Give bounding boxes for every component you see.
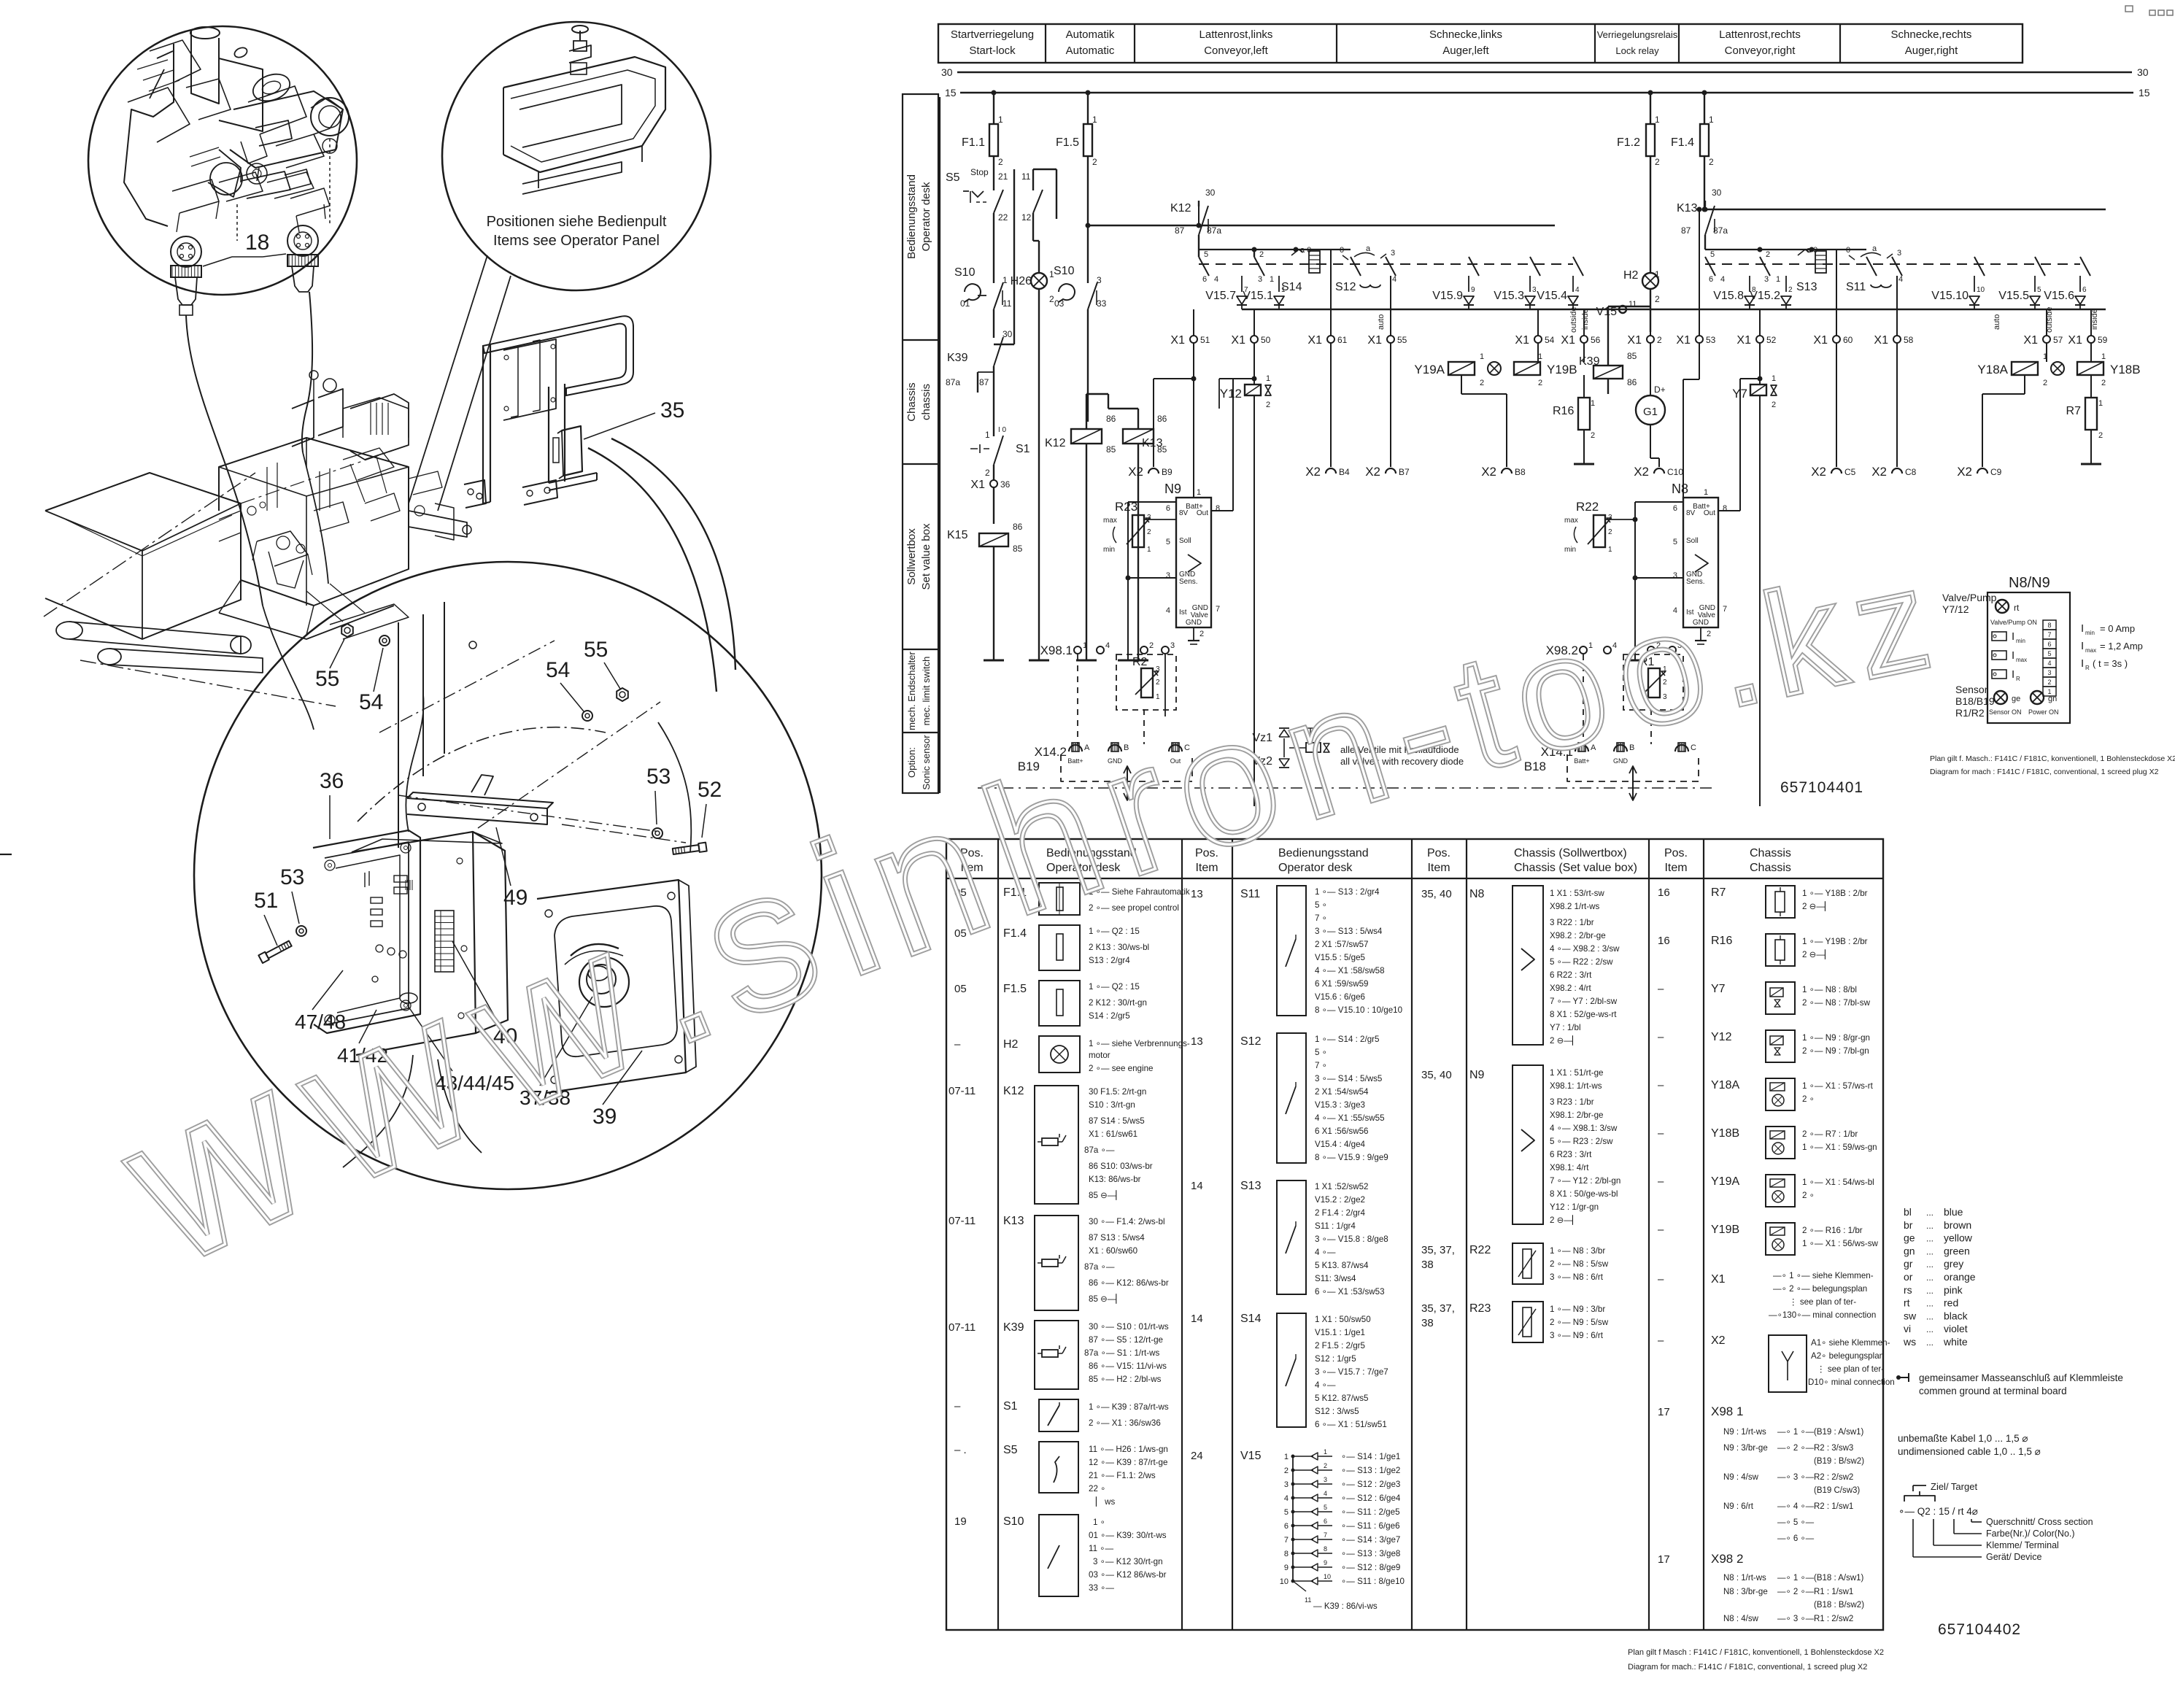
- svg-text:85: 85: [1627, 351, 1637, 361]
- svg-text:Querschnitt/ Cross section: Querschnitt/ Cross section: [1986, 1517, 2093, 1527]
- svg-text:55: 55: [315, 667, 339, 691]
- svg-text:Y7: Y7: [1711, 983, 1726, 995]
- svg-text:white: white: [1943, 1336, 1968, 1348]
- right outrigger: [409, 511, 467, 537]
- svg-text:—∘130∘— minal connection: —∘130∘— minal connection: [1769, 1310, 1876, 1320]
- svg-text:1 ∘— N8 : 3/br: 1 ∘— N8 : 3/br: [1550, 1246, 1605, 1256]
- svg-text:S11: S11: [1846, 281, 1866, 293]
- console pcb details: [371, 897, 382, 903]
- svg-text:86: 86: [1013, 522, 1023, 532]
- svg-text:2 ∘— X1 : 36/sw36: 2 ∘— X1 : 36/sw36: [1089, 1418, 1161, 1428]
- svg-text:30 ∘— F1.4: 2/ws-bl: 30 ∘— F1.4: 2/ws-bl: [1089, 1217, 1165, 1226]
- svg-text:58: 58: [1904, 335, 1914, 345]
- svg-text:2 ∘— N9 : 5/sw: 2 ∘— N9 : 5/sw: [1550, 1318, 1609, 1327]
- svg-text:X1: X1: [1736, 334, 1751, 347]
- svg-text:1 ∘— N9 : 8/gr-gn: 1 ∘— N9 : 8/gr-gn: [1802, 1033, 1870, 1043]
- svg-text:Diagram for mach : F141C / F1: Diagram for mach : F141C / F181C, conven…: [1930, 768, 2159, 776]
- svg-text:8 ∘— V15.9 : 9/ge9: 8 ∘— V15.9 : 9/ge9: [1315, 1153, 1388, 1162]
- svg-text:2 ∘— N9 : 7/bl-gn: 2 ∘— N9 : 7/bl-gn: [1802, 1046, 1869, 1056]
- svg-text:85 ∘— H2 : 2/bl-ws: 85 ∘— H2 : 2/bl-ws: [1089, 1375, 1162, 1384]
- parts table grid: [946, 839, 1883, 1630]
- svg-text:X98 1: X98 1: [1711, 1404, 1743, 1418]
- svg-text:–: –: [954, 1400, 961, 1413]
- svg-text:I: I: [2081, 622, 2084, 635]
- svg-text:1: 1: [1083, 641, 1087, 650]
- svg-text:Sensor ON: Sensor ON: [1989, 708, 2022, 716]
- svg-text:z: z: [1840, 539, 1941, 708]
- svg-text:X2: X2: [1957, 465, 1972, 479]
- direction arrow right: [1632, 768, 1634, 799]
- svg-text:8V: 8V: [1686, 509, 1696, 517]
- svg-text:V15.2 : 2/ge2: V15.2 : 2/ge2: [1315, 1195, 1365, 1205]
- svg-text:3: 3: [1284, 1480, 1289, 1489]
- svg-text:∘— S14 : 3/ge7: ∘— S14 : 3/ge7: [1341, 1535, 1400, 1545]
- svg-text:Valve/Pump ON: Valve/Pump ON: [1990, 619, 2037, 626]
- svg-text:rt: rt: [2014, 603, 2020, 613]
- svg-text:Y18B: Y18B: [2110, 363, 2141, 376]
- svg-text:or: or: [1904, 1271, 1913, 1283]
- svg-text:30: 30: [2137, 66, 2149, 78]
- svg-text:R7: R7: [1711, 886, 1726, 899]
- svg-text:(B18 : A/sw1): (B18 : A/sw1): [1814, 1574, 1864, 1583]
- svg-text:10: 10: [1280, 1577, 1289, 1586]
- svg-text:⋮ see plan of ter-: ⋮ see plan of ter-: [1817, 1364, 1884, 1374]
- svg-text:11 ∘— H26 : 1/ws-gn: 11 ∘— H26 : 1/ws-gn: [1089, 1445, 1168, 1454]
- top corner marks: [2125, 6, 2133, 12]
- svg-text:—∘ 1 ∘—: —∘ 1 ∘—: [1777, 1574, 1815, 1583]
- svg-text:X2: X2: [1811, 465, 1826, 479]
- svg-text:S10: S10: [1054, 265, 1075, 277]
- svg-text:85: 85: [1157, 444, 1167, 455]
- svg-text:11 ∘—: 11 ∘—: [1089, 1544, 1114, 1553]
- nut 55 left: [341, 624, 353, 637]
- svg-text:3: 3: [1532, 286, 1537, 294]
- svg-text:K12: K12: [1170, 202, 1191, 215]
- svg-text:Power ON: Power ON: [2028, 708, 2059, 716]
- svg-text:max: max: [2016, 657, 2027, 663]
- knob 37 38: [579, 957, 629, 1007]
- svg-text:07-11: 07-11: [949, 1321, 976, 1334]
- svg-text:N9 : 3/br-ge: N9 : 3/br-ge: [1723, 1444, 1768, 1453]
- svg-text:D10∘ minal connection: D10∘ minal connection: [1808, 1377, 1895, 1387]
- svg-text:–: –: [1658, 1127, 1664, 1140]
- svg-text:V15.5 : 5/ge5: V15.5 : 5/ge5: [1315, 953, 1365, 962]
- svg-text:11: 11: [1002, 298, 1012, 309]
- svg-text:2 ∘— see engine: 2 ∘— see engine: [1089, 1064, 1153, 1073]
- svg-text:–: –: [1658, 983, 1664, 995]
- svg-text:52: 52: [1766, 335, 1777, 345]
- svg-text:S12: S12: [1240, 1035, 1262, 1048]
- svg-text:35, 40: 35, 40: [1421, 888, 1452, 900]
- mount post lines: [398, 622, 399, 848]
- svg-text:X2: X2: [1711, 1334, 1726, 1347]
- svg-text:30: 30: [1712, 188, 1722, 198]
- svg-text:54: 54: [1545, 335, 1555, 345]
- svg-text:V15: V15: [1240, 1450, 1262, 1462]
- svg-text:52: 52: [698, 778, 722, 802]
- svg-text:F1.2: F1.2: [1617, 136, 1640, 149]
- N8 ground pin: [1700, 627, 1701, 641]
- S13 press symbol: [1815, 251, 1826, 273]
- svg-text:2: 2: [1591, 431, 1595, 440]
- svg-text:F1.4: F1.4: [1671, 136, 1694, 149]
- connector plug right: [287, 225, 318, 256]
- svg-text:5: 5: [1284, 1508, 1289, 1517]
- svg-text:B8: B8: [1515, 467, 1526, 477]
- operator deck rail: [343, 398, 409, 438]
- svg-text:87 ∘— S5 : 12/rt-ge: 87 ∘— S5 : 12/rt-ge: [1089, 1335, 1163, 1345]
- svg-text:I: I: [2012, 630, 2014, 643]
- svg-text:S12 : 3/ws5: S12 : 3/ws5: [1315, 1407, 1359, 1416]
- svg-text:30 ∘— S10 : 01/rt-ws: 30 ∘— S10 : 01/rt-ws: [1089, 1322, 1169, 1332]
- svg-text:X1: X1: [1711, 1273, 1726, 1286]
- svg-text:Klemme/ Terminal: Klemme/ Terminal: [1986, 1540, 2059, 1550]
- svg-text:2 ⊖—▏: 2 ⊖—▏: [1802, 948, 1831, 959]
- svg-text:51: 51: [1200, 335, 1210, 345]
- svg-text:87a: 87a: [1207, 225, 1221, 236]
- svg-text:85: 85: [1106, 444, 1116, 455]
- wires from diode bus to X1 row: [1193, 309, 1194, 336]
- svg-text:55: 55: [584, 638, 608, 662]
- svg-text:B18/B19: B18/B19: [1955, 695, 1995, 707]
- svg-text:vi: vi: [1904, 1323, 1911, 1334]
- svg-text:21: 21: [998, 171, 1008, 182]
- svg-text:inside: inside: [1581, 309, 1590, 330]
- svg-text:max: max: [1564, 517, 1578, 525]
- svg-text:87a ∘— S1 : 1/rt-ws: 87a ∘— S1 : 1/rt-ws: [1084, 1348, 1159, 1358]
- svg-text:36: 36: [320, 769, 344, 793]
- svg-text:N8: N8: [1672, 482, 1688, 496]
- svg-text:Lattenrost,rechts: Lattenrost,rechts: [1719, 28, 1801, 41]
- svg-text:br: br: [1904, 1219, 1913, 1231]
- svg-text:auto: auto: [1377, 314, 1386, 330]
- svg-text:35, 40: 35, 40: [1421, 1069, 1452, 1081]
- paver machine sketch: [45, 473, 241, 639]
- svg-text:1: 1: [1147, 546, 1151, 554]
- svg-text:5: 5: [2037, 286, 2041, 294]
- svg-text:Diagram for mach.: F141C / F1: Diagram for mach.: F141C / F181C, conven…: [1628, 1663, 1867, 1672]
- svg-text:I: I: [2081, 640, 2084, 652]
- svg-text:0: 0: [1340, 246, 1344, 255]
- svg-text:N8: N8: [1469, 888, 1485, 900]
- svg-text:2: 2: [1538, 379, 1542, 387]
- svg-text:1 ∘— X1 : 56/ws-sw: 1 ∘— X1 : 56/ws-sw: [1802, 1239, 1879, 1248]
- svg-text:2: 2: [1480, 379, 1484, 387]
- svg-text:3: 3: [1324, 1476, 1327, 1483]
- front panel 39: [537, 880, 686, 1093]
- svg-text:green: green: [1944, 1245, 1970, 1256]
- svg-text:6: 6: [1284, 1522, 1289, 1531]
- dashed links X98.1 to X14.2: [1077, 654, 1078, 744]
- svg-text:X98.1: 2/br-ge: X98.1: 2/br-ge: [1550, 1110, 1603, 1120]
- fold mark left edge: [0, 854, 12, 855]
- watermark: [85, 539, 1941, 1312]
- svg-text:24: 24: [1191, 1450, 1203, 1462]
- svg-text:8: 8: [1723, 504, 1727, 513]
- svg-text:∘— S12 : 8/ge9: ∘— S12 : 8/ge9: [1341, 1563, 1400, 1572]
- svg-text:K12: K12: [1003, 1085, 1024, 1097]
- svg-text:S11: 3/ws4: S11: 3/ws4: [1315, 1274, 1356, 1283]
- svg-text:87: 87: [1175, 225, 1185, 236]
- svg-text:5 ∘— R23 : 2/sw: 5 ∘— R23 : 2/sw: [1550, 1137, 1613, 1146]
- svg-text:1: 1: [1281, 286, 1286, 294]
- svg-text:Automatik: Automatik: [1066, 28, 1115, 41]
- svg-text:07-11: 07-11: [949, 1085, 976, 1097]
- svg-text:V15.4: V15.4: [1537, 290, 1567, 302]
- svg-text:54: 54: [546, 658, 570, 682]
- svg-text:2 F1.4 : 2/gr4: 2 F1.4 : 2/gr4: [1315, 1208, 1366, 1218]
- svg-text:5: 5: [1204, 250, 1208, 259]
- svg-text:C8: C8: [1905, 467, 1917, 477]
- svg-text:K39: K39: [947, 352, 968, 364]
- svg-text:1 ∘— K39 : 87a/rt-ws: 1 ∘— K39 : 87a/rt-ws: [1089, 1402, 1169, 1412]
- svg-text:gr: gr: [1904, 1258, 1913, 1270]
- svg-text:X1: X1: [1561, 334, 1575, 347]
- svg-text:7 ∘— Y7 : 2/bl-sw: 7 ∘— Y7 : 2/bl-sw: [1550, 997, 1618, 1006]
- svg-text:51: 51: [254, 889, 278, 913]
- guard rail frame: [483, 316, 633, 395]
- option row dash-dot line: [978, 787, 1716, 789]
- wires X1 61 55 to X2: [1330, 343, 1332, 467]
- svg-text:Verriegelungsrelais: Verriegelungsrelais: [1597, 29, 1678, 40]
- svg-text:orange: orange: [1944, 1271, 1976, 1283]
- svg-text:N8 : 3/br-ge: N8 : 3/br-ge: [1723, 1588, 1768, 1596]
- svg-text:1: 1: [2101, 352, 2106, 361]
- svg-text:∘— S11 : 8/ge10: ∘— S11 : 8/ge10: [1341, 1577, 1405, 1586]
- svg-text:35, 37,: 35, 37,: [1421, 1244, 1455, 1256]
- svg-text:N8/N9: N8/N9: [2009, 575, 2050, 591]
- out wire from N8: [1718, 510, 1740, 511]
- svg-text:1 ∘— siehe Verbrennungs-: 1 ∘— siehe Verbrennungs-: [1089, 1039, 1190, 1048]
- svg-text:33: 33: [1097, 298, 1107, 309]
- svg-text:1 ∘— S14 : 2/gr5: 1 ∘— S14 : 2/gr5: [1315, 1035, 1379, 1044]
- svg-text:gn: gn: [2048, 695, 2057, 703]
- svg-text:7: 7: [1324, 1531, 1327, 1539]
- svg-text:X98 2: X98 2: [1711, 1552, 1743, 1566]
- svg-text:–: –: [1658, 1175, 1664, 1188]
- svg-text:2 ⊖—▏: 2 ⊖—▏: [1550, 1214, 1579, 1225]
- svg-text:3 R23 : 1/br: 3 R23 : 1/br: [1550, 1097, 1594, 1107]
- svg-text:2: 2: [1788, 286, 1793, 294]
- svg-text:C9: C9: [1990, 467, 2002, 477]
- svg-text:1: 1: [985, 430, 990, 440]
- svg-text:X98.1: 1/rt-ws: X98.1: 1/rt-ws: [1550, 1081, 1602, 1091]
- svg-text:3: 3: [1391, 249, 1395, 258]
- svg-text:R23: R23: [1115, 500, 1137, 514]
- svg-text:38: 38: [1421, 1259, 1434, 1271]
- svg-text:min: min: [1103, 546, 1115, 554]
- svg-text:motor: motor: [1089, 1051, 1110, 1060]
- svg-text:1: 1: [1284, 1453, 1289, 1461]
- svg-text:yellow: yellow: [1944, 1232, 1973, 1244]
- svg-text:D+: D+: [1654, 385, 1666, 395]
- svg-text:V15: V15: [1596, 306, 1618, 318]
- svg-text:1: 1: [1591, 399, 1595, 408]
- svg-text:S10: S10: [1003, 1515, 1024, 1528]
- svg-text:R2: R2: [1132, 656, 1148, 668]
- svg-text:1 X1 : 51/rt-ge: 1 X1 : 51/rt-ge: [1550, 1068, 1603, 1078]
- svg-text:86 ∘— V15: 11/vi-ws: 86 ∘— V15: 11/vi-ws: [1089, 1361, 1167, 1371]
- svg-text:2 ∘— N8 : 5/sw: 2 ∘— N8 : 5/sw: [1550, 1259, 1609, 1269]
- svg-text:▏ ws: ▏ ws: [1095, 1496, 1116, 1507]
- svg-text:N9 : 4/sw: N9 : 4/sw: [1723, 1473, 1759, 1482]
- svg-text:Y12: Y12: [1220, 387, 1242, 401]
- svg-text:min: min: [2016, 638, 2025, 644]
- svg-text:9: 9: [1471, 286, 1475, 294]
- verticals above diode bus: [1330, 276, 1332, 309]
- svg-text:22 ∘: 22 ∘: [1089, 1484, 1105, 1493]
- svg-text:rt: rt: [1904, 1297, 1910, 1309]
- sensor resistor R2 dashed box: [1116, 654, 1176, 710]
- svg-text:4: 4: [1166, 606, 1170, 615]
- svg-text:—∘ 4 ∘—: —∘ 4 ∘—: [1777, 1502, 1815, 1511]
- svg-text:2 ∘— N8 : 7/bl-sw: 2 ∘— N8 : 7/bl-sw: [1802, 998, 1871, 1008]
- svg-text:...: ...: [1926, 1207, 1933, 1218]
- svg-text:2: 2: [1284, 1467, 1289, 1475]
- svg-text:–: –: [954, 1038, 961, 1051]
- cable from console: [406, 695, 423, 832]
- svg-text:Y19B: Y19B: [1711, 1224, 1739, 1236]
- svg-text:V15.2: V15.2: [1750, 290, 1780, 302]
- svg-text:R7: R7: [2066, 405, 2082, 417]
- svg-text:4: 4: [2047, 660, 2051, 667]
- pump detail clutter: [150, 40, 201, 82]
- svg-text:S5: S5: [1003, 1444, 1018, 1456]
- svg-text:N8 : 4/sw: N8 : 4/sw: [1723, 1615, 1759, 1623]
- svg-text:86 ∘— K12: 86/ws-br: 86 ∘— K12: 86/ws-br: [1089, 1278, 1169, 1288]
- svg-text:35, 37,: 35, 37,: [1421, 1302, 1455, 1315]
- svg-text:red: red: [1944, 1297, 1958, 1309]
- svg-text:N9: N9: [1469, 1069, 1485, 1081]
- svg-text:S13: S13: [1240, 1180, 1262, 1192]
- svg-text:4 ∘— X98.1: 3/sw: 4 ∘— X98.1: 3/sw: [1550, 1124, 1618, 1133]
- svg-text:Schnecke,links: Schnecke,links: [1429, 28, 1502, 41]
- svg-text:2: 2: [1259, 250, 1264, 259]
- svg-text:a 0: a 0: [1300, 246, 1311, 255]
- svg-text:1 X1 :52/sw52: 1 X1 :52/sw52: [1315, 1182, 1368, 1191]
- svg-text:2: 2: [998, 157, 1003, 167]
- dashed coupling line right: [1705, 263, 2080, 265]
- svg-text:1: 1: [1608, 546, 1612, 554]
- svg-text:X1: X1: [2023, 334, 2038, 347]
- detail circle pump connectors: [88, 26, 357, 295]
- svg-text:...: ...: [1926, 1311, 1933, 1321]
- svg-text:X1: X1: [1170, 334, 1185, 347]
- svg-text:R: R: [2016, 676, 2020, 682]
- svg-text:1: 1: [1270, 275, 1274, 284]
- link bar left: [1199, 249, 1351, 250]
- svg-text:mech. Endschalter: mech. Endschalter: [906, 652, 917, 730]
- svg-text:K13: K13: [1677, 202, 1698, 215]
- svg-text:C5: C5: [1844, 467, 1856, 477]
- svg-text:—∘ 6 ∘—: —∘ 6 ∘—: [1777, 1534, 1815, 1543]
- svg-text:9: 9: [1324, 1559, 1327, 1566]
- svg-text:Auger,right: Auger,right: [1905, 45, 1958, 57]
- svg-text:Item: Item: [1427, 862, 1450, 874]
- pump block sketch: [124, 44, 174, 226]
- diode row right: [1749, 276, 1750, 292]
- svg-text:R1/R2: R1/R2: [1955, 707, 1985, 719]
- svg-text:15: 15: [2139, 87, 2150, 98]
- svg-text:auto: auto: [1993, 314, 2001, 330]
- svg-text:Gerät/ Device: Gerät/ Device: [1986, 1552, 2041, 1562]
- svg-text:Chassis: Chassis: [1750, 847, 1791, 859]
- svg-text:S13 : 2/gr4: S13 : 2/gr4: [1089, 956, 1130, 965]
- svg-text:12: 12: [1021, 212, 1032, 223]
- svg-text:pink: pink: [1944, 1284, 1963, 1296]
- svg-text:H2: H2: [1623, 269, 1639, 282]
- svg-text:3: 3: [1258, 275, 1262, 284]
- left rail of N9 block: [1127, 502, 1129, 660]
- svg-text:1 ∘— S13 : 2/gr4: 1 ∘— S13 : 2/gr4: [1315, 887, 1380, 897]
- svg-text:2: 2: [1655, 157, 1660, 167]
- washer 54 right: [582, 711, 592, 721]
- generator G1: [1650, 343, 1651, 395]
- svg-text:V15.6: V15.6: [2044, 290, 2074, 302]
- svg-text:–: –: [1658, 1334, 1664, 1347]
- feed rail right: [1704, 209, 2106, 211]
- svg-text:61: 61: [1337, 335, 1348, 345]
- svg-text:87: 87: [1681, 225, 1691, 236]
- svg-text:2: 2: [1657, 335, 1662, 345]
- svg-text:Out: Out: [1704, 509, 1715, 517]
- svg-text:I: I: [2081, 657, 2084, 670]
- svg-text:Stop: Stop: [970, 167, 989, 177]
- svg-text:— K39 : 86/vi-ws: — K39 : 86/vi-ws: [1313, 1601, 1378, 1611]
- svg-text:6: 6: [1202, 275, 1207, 284]
- svg-text:2 ⊖—▏: 2 ⊖—▏: [1550, 1035, 1579, 1046]
- svg-text:X1: X1: [1307, 334, 1322, 347]
- svg-text:22: 22: [998, 212, 1008, 223]
- rear frame 36: [313, 830, 420, 1033]
- svg-text:—∘ 2 ∘—: —∘ 2 ∘—: [1777, 1588, 1815, 1596]
- svg-text:S13: S13: [1796, 281, 1817, 293]
- svg-text:Bedienungsstand: Bedienungsstand: [905, 174, 918, 259]
- svg-text:3 ∘— K12 30/rt-gn: 3 ∘— K12 30/rt-gn: [1093, 1557, 1163, 1566]
- dash dot to screw 52: [562, 824, 686, 843]
- svg-text:55: 55: [1397, 335, 1407, 345]
- svg-text:Ist: Ist: [1179, 608, 1187, 617]
- svg-text:– .: – .: [954, 1444, 967, 1456]
- svg-text:Lattenrost,links: Lattenrost,links: [1199, 28, 1273, 41]
- svg-text:X2: X2: [1481, 465, 1496, 479]
- svg-text:Chassis (Set value box): Chassis (Set value box): [1514, 862, 1637, 874]
- svg-text:—∘ 3 ∘—: —∘ 3 ∘—: [1777, 1615, 1815, 1623]
- svg-text:I: I: [2012, 668, 2014, 681]
- svg-text:1: 1: [1324, 1448, 1327, 1456]
- svg-text:R2 : 2/sw2: R2 : 2/sw2: [1814, 1473, 1853, 1482]
- svg-text:2: 2: [1772, 401, 1776, 409]
- svg-text:2: 2: [985, 468, 990, 478]
- svg-text:1: 1: [2098, 399, 2103, 408]
- link bar right: [1705, 249, 1866, 250]
- svg-text:outside: outside: [1569, 307, 1578, 333]
- svg-text:a: a: [1872, 244, 1877, 253]
- svg-text:chassis: chassis: [920, 384, 932, 420]
- svg-text:2 ∘: 2 ∘: [1802, 1191, 1815, 1200]
- common ground note: [1896, 1375, 1901, 1380]
- svg-text:X2: X2: [1305, 465, 1321, 479]
- svg-text:A2∘ belegungsplan: A2∘ belegungsplan: [1811, 1351, 1884, 1361]
- svg-text:6: 6: [1673, 504, 1677, 513]
- svg-text:B7: B7: [1399, 467, 1410, 477]
- svg-text:3: 3: [1897, 249, 1901, 258]
- svg-text:1 ∘— X1 : 54/ws-bl: 1 ∘— X1 : 54/ws-bl: [1802, 1178, 1874, 1187]
- svg-text:3 ∘— S13 : 5/ws4: 3 ∘— S13 : 5/ws4: [1315, 927, 1383, 936]
- svg-text:N9 : 6/rt: N9 : 6/rt: [1723, 1502, 1754, 1511]
- svg-text:Auger,left: Auger,left: [1442, 45, 1489, 57]
- svg-text:1: 1: [1480, 352, 1484, 361]
